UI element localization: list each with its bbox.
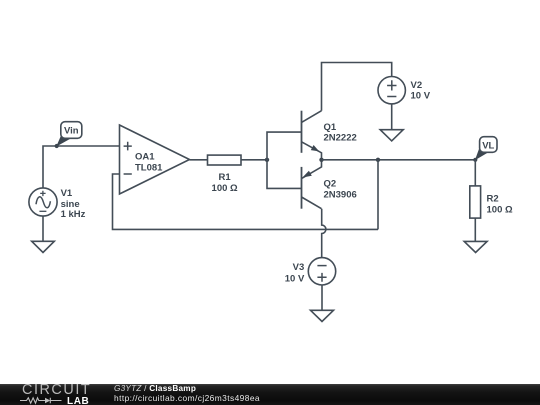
svg-text:100 Ω: 100 Ω [487,204,513,215]
op-amp OA1 TL081 [120,125,190,194]
node Vin flag label [56,122,82,147]
label OA1 value [135,151,163,173]
svg-text:VL: VL [482,140,494,151]
svg-text:2N2222: 2N2222 [324,132,357,143]
svg-text:OA1: OA1 [135,151,155,162]
svg-text:R1: R1 [219,172,232,183]
label V1 value [61,188,86,220]
wire V2 to ground [391,104,393,130]
node VL attachment dot [473,158,477,162]
label Q1 value [324,122,357,143]
label V3 value [285,262,305,284]
transistor Q2 2N3906 (PNP) [302,160,322,209]
wire output node to VL / R2 [322,159,476,161]
svg-text:V1: V1 [61,188,73,199]
label R1 value [212,172,238,194]
ground (V3) [311,310,334,321]
wire V3 to ground [321,285,323,311]
svg-text:10 V: 10 V [411,90,431,101]
wire Vin net: V1 top to op-amp non-inverting input [43,146,120,188]
ground (R2) [464,241,487,252]
svg-text:R2: R2 [487,193,499,204]
node base junction [265,158,269,162]
ground (V1) [32,241,55,252]
svg-text:10 V: 10 V [285,274,305,285]
transistor Q1 2N2222 (NPN) [302,111,322,160]
resistor R1 [208,155,242,165]
CircuitLab logo [22,384,91,396]
svg-text:TL081: TL081 [135,162,163,173]
resistor R2 [470,186,481,218]
wire Q1 collector to V2 [322,63,392,111]
wire feedback: op-amp inverting input down and along bottom to output node [113,174,379,229]
wire Q2 collector to V3 (with hop over feedback wire) [322,209,326,258]
svg-text:100 Ω: 100 Ω [212,183,238,194]
attribution text [114,385,260,404]
svg-text:Vin: Vin [64,126,79,137]
footer bar [0,384,540,405]
label R2 value [487,193,513,215]
wire base bracket to Q1 and Q2 bases [267,132,302,188]
wire feedback vertical drop [377,160,379,230]
node output junction [319,158,323,162]
node feedback junction [376,158,380,162]
voltage source V1 (sine) [29,188,57,216]
svg-text:V3: V3 [293,262,305,273]
voltage source V2 [378,77,405,104]
node VL flag label [475,137,497,161]
wire VL node to R2 [474,160,476,186]
label V2 value [411,80,431,101]
node Vin attachment dot [55,144,59,148]
svg-text:1 kHz: 1 kHz [61,209,86,220]
wire R2 to ground [474,218,476,241]
wire R1 to base node [241,159,267,161]
voltage source V3 [308,258,335,285]
wire V1 to ground [42,216,44,241]
svg-text:Q1: Q1 [324,122,337,133]
wire op-amp output to R1 [190,159,208,161]
label Q2 value [324,179,357,201]
svg-text:2N3906: 2N3906 [324,190,357,201]
ground (V2) [380,130,403,141]
svg-text:Q2: Q2 [324,179,337,190]
